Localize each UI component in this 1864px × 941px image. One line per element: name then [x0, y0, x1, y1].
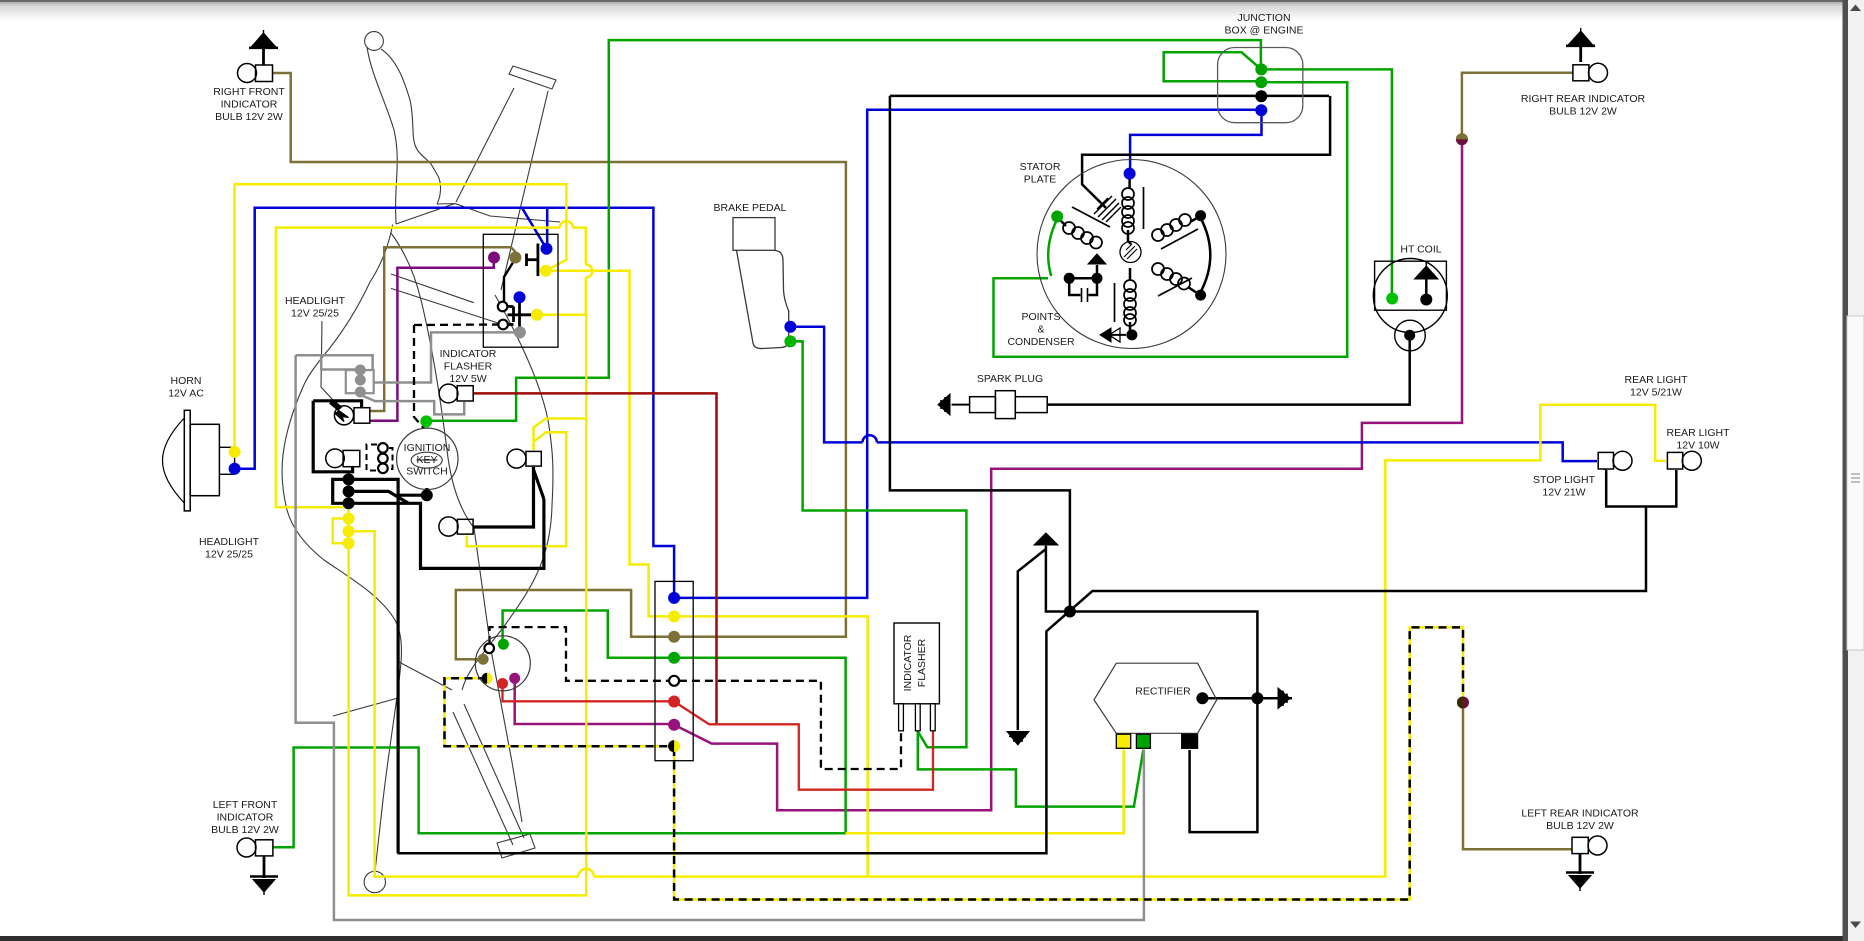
wire black: engine box right side to stator: [1082, 96, 1330, 208]
stator right top coil: [1152, 214, 1198, 249]
bulb right rear indicator: [1573, 63, 1608, 82]
stator flywheel hatch: [1094, 196, 1121, 222]
horn symbol: [163, 410, 235, 511]
ignition dashed contact box: [367, 445, 393, 471]
headlight label leader line: [321, 321, 333, 400]
brake pedal symbol: [733, 218, 789, 349]
wire black: HT coil ground stub: [1425, 279, 1428, 297]
wire olive: right rear indicator down to junction dot: [1462, 73, 1573, 136]
ground right front indicator: [249, 30, 278, 65]
svg-text:KEY: KEY: [416, 454, 437, 466]
svg-text:POINTS: POINTS: [1021, 311, 1060, 323]
ground HT coil: [1415, 262, 1439, 279]
svg-text:INDICATOR: INDICATOR: [902, 634, 914, 691]
wire purple: connector to right rear indicator junction: [674, 141, 1462, 810]
switch open contact 2: [498, 320, 508, 330]
wire gray: block dot3 to flasher bulb: [362, 396, 464, 415]
ground below diagonal: [1007, 732, 1029, 746]
wire olive: dip switch to handlebar switch: [370, 247, 516, 411]
node switch yellow 1: [540, 265, 552, 277]
wire dark red: indicator flasher bulb to junction: [474, 393, 717, 724]
wire black: rectifier output to ground: [1202, 697, 1273, 700]
wire yellow: cluster vertical and bottom loop to long riser: [349, 315, 587, 896]
ignition key ellipse: [411, 452, 442, 468]
wire yellow Y2: headlight riser to switch dot2: [276, 228, 560, 517]
node horn blue: [229, 463, 241, 475]
stator hub: [1120, 242, 1141, 263]
node gray block 3: [355, 387, 366, 398]
node cluster yellow 1: [343, 513, 355, 525]
svg-text:LEFT FRONT: LEFT FRONT: [213, 799, 278, 811]
relay pin 1: [899, 704, 904, 731]
svg-text:RECTIFIER: RECTIFIER: [1135, 686, 1191, 698]
node gray block 2: [355, 375, 366, 386]
wire blue: brake pedal to stop light (right part): [877, 442, 1597, 461]
svg-text:12V 5W: 12V 5W: [449, 373, 486, 385]
wire black: cluster dot1 bracket: [333, 479, 349, 503]
node stator bottom terminal: [1126, 329, 1137, 340]
scrollbar down arrow: [1850, 922, 1861, 929]
indicator flasher relay box: [894, 623, 939, 704]
node connector open: [669, 676, 679, 686]
spark plug symbol: [970, 391, 1048, 419]
node cluster black 3: [343, 497, 355, 509]
connector strip: [655, 581, 693, 760]
wire yellow: switch dot1 stub to connector: [547, 271, 671, 617]
wire blue: hop over riser: [863, 435, 877, 442]
svg-text:BULB 12V 2W: BULB 12V 2W: [1549, 106, 1617, 118]
kick lever lines: [391, 233, 522, 822]
svg-text:BULB 12V 2W: BULB 12V 2W: [215, 111, 283, 123]
wire yellow: bus continues to rear lights: [594, 405, 1666, 877]
node connector purple: [668, 719, 680, 731]
svg-text:RIGHT REAR INDICATOR: RIGHT REAR INDICATOR: [1521, 93, 1646, 105]
wire black: cluster dot2 diagonal: [349, 491, 409, 503]
bulb left rear indicator: [1572, 836, 1607, 855]
node cluster yellow 2: [343, 525, 355, 537]
rectifier hexagon: [1094, 663, 1217, 733]
right window border line: [1843, 0, 1849, 941]
wire yellow Y1: horn to switch area: [235, 184, 567, 452]
wire blue: branch diagonal into switch blue dot: [522, 208, 547, 249]
HT coil symbol: [1373, 259, 1447, 351]
ground stator points: [1088, 254, 1106, 264]
wire black: pilot bulb drop and diagonal: [474, 467, 534, 527]
fork tube flange: [509, 66, 556, 89]
ground rectifier right: [1273, 688, 1292, 709]
node rectifier bus junction: [1251, 692, 1263, 704]
wire black: bottom coil to bottom terminal: [1129, 322, 1132, 335]
svg-text:SPARK PLUG: SPARK PLUG: [977, 373, 1043, 385]
bottom window bar: [0, 936, 1864, 941]
wire green: junction dot1 to HT coil: [1264, 69, 1392, 295]
svg-text:12V 25/25: 12V 25/25: [205, 549, 253, 561]
ground above black bus: [1034, 533, 1058, 546]
node junction black: [1255, 90, 1267, 102]
wire black: ignition dot feed: [398, 494, 425, 497]
bulb left front indicator: [237, 838, 273, 857]
wire green: ignition switch to junction box dot1: [429, 40, 1261, 421]
node bus junction left: [1064, 606, 1076, 618]
wire gray: block top hook: [321, 355, 372, 370]
wire green: brake pedal to flasher pin2: [792, 341, 966, 747]
node plug purple: [509, 673, 520, 684]
node horn yellow: [229, 446, 241, 458]
node connector yellow: [668, 610, 680, 622]
node connector olive: [668, 631, 680, 643]
wire black: ignition dot stub: [425, 488, 428, 495]
node connector red: [668, 696, 680, 708]
ignition contact circle 1: [378, 443, 388, 453]
svg-text:12V 21W: 12V 21W: [1542, 487, 1585, 499]
wire purple: round plug to connector: [515, 678, 672, 724]
wire yellow: cluster bracket: [333, 519, 349, 544]
svg-text:12V AC: 12V AC: [168, 388, 204, 400]
wire black: ground pole diagonal to lower ground: [1018, 549, 1046, 730]
node cluster black 2: [343, 485, 355, 497]
handlebar switch box: [483, 234, 558, 347]
wire black: dip switch L and left drop: [313, 401, 361, 407]
wire black: engine box top from junction: [890, 95, 1329, 98]
node stator blue terminal: [1124, 168, 1136, 180]
svg-text:&: &: [1037, 324, 1044, 336]
node stator green terminal: [1051, 211, 1063, 223]
svg-text:INDICATOR: INDICATOR: [221, 99, 278, 111]
rectifier yellow terminal: [1116, 734, 1130, 748]
bulb stop light: [1598, 451, 1632, 470]
svg-text:12V 5/21W: 12V 5/21W: [1630, 387, 1682, 399]
handlebar tent outline: [396, 204, 560, 225]
node plug yellow-black: [482, 673, 493, 684]
kick pedal cap: [497, 834, 535, 858]
ground spark plug: [938, 394, 970, 415]
svg-text:RIGHT FRONT: RIGHT FRONT: [213, 86, 285, 98]
wire black: cluster dot1 to long drop: [349, 479, 399, 853]
wire yellow Y2: into switch yellow dot2: [538, 278, 586, 315]
condenser plates: [1082, 288, 1088, 302]
node rectifier output: [1196, 692, 1208, 704]
wire dashed: round plug to connector to flasher pin1: [490, 627, 902, 769]
node HT coil ground: [1420, 294, 1432, 306]
ignition switch circle: [397, 428, 458, 489]
scrollbar up arrow: [1850, 5, 1861, 12]
wire dashed: switch to ignition: [414, 325, 424, 429]
wire yellow Y2: hop over Y1 vertical: [560, 221, 573, 227]
junction box at engine: [1218, 48, 1303, 123]
wire green: left front indicator to connector to round plug: [274, 611, 846, 848]
node olive-maroon junction top right: [1456, 133, 1468, 145]
wire black: condenser hookup: [1069, 278, 1080, 295]
rectifier green terminal: [1136, 734, 1150, 748]
svg-text:HEADLIGHT: HEADLIGHT: [199, 536, 260, 548]
node ignition black: [421, 489, 433, 501]
wire black: rear bulbs ground bus: [1606, 470, 1676, 507]
wire black: points dots bar: [1069, 277, 1097, 280]
svg-text:HEADLIGHT: HEADLIGHT: [285, 295, 346, 307]
relay pin 3: [930, 704, 935, 731]
wire purple: dip switch to handlebar switch: [370, 259, 494, 421]
node cluster black 1: [343, 473, 355, 485]
node HT coil output: [1404, 330, 1415, 341]
node brake pedal blue: [784, 321, 796, 333]
wire black: bottom bus to rear lights: [397, 507, 1646, 854]
svg-text:12V 25/25: 12V 25/25: [291, 308, 339, 320]
fork tube outline: [456, 88, 548, 290]
svg-text:PLATE: PLATE: [1024, 174, 1056, 186]
scrollbar thumb: [1847, 316, 1864, 650]
wire blue: junction box to stator terminal: [1130, 112, 1261, 171]
wire black: bottom coil to hub: [1129, 268, 1132, 280]
wire black: stator right terminals arc: [1201, 218, 1211, 292]
ground stator bottom arrows: [1100, 328, 1126, 342]
svg-text:HORN: HORN: [171, 375, 202, 387]
node connector green: [668, 652, 680, 664]
wire black: stop light bulb ground drop: [1604, 469, 1607, 470]
stator left coil: [1063, 207, 1110, 249]
handlebar diagonal lines: [391, 274, 504, 325]
wire black: right top coil stub: [1190, 218, 1197, 222]
wire olive: left rear indicator from junction dot: [1463, 705, 1572, 849]
switch open contact 1: [498, 302, 508, 312]
stator right bottom coil: [1152, 263, 1192, 296]
wire black: ground pole to bus: [1046, 546, 1258, 695]
node stator right top terminal: [1195, 210, 1206, 221]
node ignition green: [420, 415, 432, 427]
brake lever outline: [381, 49, 441, 204]
node junction green 1: [1255, 63, 1267, 75]
node plug green: [498, 639, 509, 650]
wire black: spark plug to HT coil: [1047, 337, 1410, 405]
switch top contact bars: [527, 244, 538, 277]
ignition contact circle 3: [378, 464, 388, 474]
node yellowblack-olive junction bottom right: [1457, 697, 1469, 709]
body legshield curve: [282, 225, 401, 872]
bulb pilot: [507, 449, 541, 468]
wire black: cluster dot3 line to lower bus: [349, 499, 544, 568]
dip switch arrow: [330, 400, 349, 422]
wire green: stator arc green terminal: [1048, 219, 1057, 276]
svg-text:LEFT REAR INDICATOR: LEFT REAR INDICATOR: [1521, 808, 1639, 820]
ground left front indicator: [250, 856, 278, 895]
switch lower contact cross: [507, 302, 536, 333]
svg-text:STOP LIGHT: STOP LIGHT: [1533, 474, 1596, 486]
wire dashed: switch contact stub: [414, 323, 499, 326]
bulb rear light 10W: [1667, 451, 1701, 470]
wire yellow Y2: hop over dot1 stub: [586, 265, 593, 278]
wire blue: horn to switch to connector: [235, 208, 674, 598]
wire red: round plug to connector: [503, 685, 673, 701]
bulb dip switch: [334, 406, 369, 425]
node plug red: [497, 678, 508, 689]
wire black: right bottom coil stub: [1188, 287, 1197, 293]
wire yellow: headlight bulb loop: [467, 432, 566, 546]
wire yellow: bus hop over long riser: [578, 869, 594, 877]
node connector yellow-black: [668, 740, 680, 752]
stator top coil: [1122, 187, 1144, 234]
svg-text:REAR LIGHT: REAR LIGHT: [1666, 427, 1730, 439]
wire black: rectifier loop to black terminal: [1190, 698, 1258, 832]
wire olive: right front indicator to connector to round plug: [273, 73, 846, 659]
ground left rear indicator: [1566, 854, 1594, 891]
bulb indicator flasher 12V 5W: [439, 384, 473, 403]
node plug open: [484, 644, 494, 654]
svg-text:12V 10W: 12V 10W: [1676, 440, 1719, 452]
svg-text:REAR LIGHT: REAR LIGHT: [1624, 374, 1688, 386]
ground right rear indicator: [1566, 28, 1595, 62]
wire black: engine box left side to rectifier area: [890, 96, 1070, 608]
node cluster yellow 3: [343, 537, 355, 549]
stator bottom coil: [1115, 280, 1137, 326]
svg-text:FLASHER: FLASHER: [916, 638, 928, 687]
svg-text:BULB 12V 2W: BULB 12V 2W: [1546, 820, 1614, 832]
wire gray: switch gray dot to 3-dot block: [375, 332, 519, 382]
svg-text:INDICATOR: INDICATOR: [217, 812, 274, 824]
wire black: points ground pole: [1096, 265, 1099, 278]
svg-text:STATOR: STATOR: [1020, 161, 1061, 173]
svg-text:BOX @ ENGINE: BOX @ ENGINE: [1225, 25, 1304, 37]
svg-text:CONDENSER: CONDENSER: [1007, 336, 1075, 348]
wire yellow: connector to bottom bus junction: [677, 616, 868, 876]
node junction green 2: [1255, 76, 1267, 88]
svg-text:FLASHER: FLASHER: [444, 361, 493, 373]
wire black: top coil to hub: [1128, 230, 1131, 244]
wire yellow: pilot bulb feed from long riser: [534, 419, 587, 451]
wire yellow: cluster dot2 stub to bottom bus to rear light 10W: [349, 531, 579, 876]
brake lever ball: [365, 32, 384, 51]
svg-text:JUNCTION: JUNCTION: [1237, 12, 1290, 24]
node brake pedal green: [784, 335, 796, 347]
node switch purple: [488, 252, 500, 264]
body curve right of ignition: [462, 295, 553, 690]
node switch yellow 2: [531, 309, 543, 321]
front wheel hub circle: [364, 871, 385, 892]
node switch blue 2: [514, 291, 526, 303]
bulb right front indicator: [238, 64, 273, 83]
round plug circle: [475, 636, 530, 691]
ignition contact circle 2: [378, 454, 388, 464]
wire yellow-black: round plug to connector to left rear indicator: [445, 678, 672, 746]
wire gray: long run to rectifier green terminal: [296, 354, 373, 357]
wire red: connector to flasher pin3: [674, 702, 933, 790]
node switch blue top: [541, 243, 553, 255]
scrollbar track: [1848, 0, 1864, 941]
wire blue: brake pedal switch to stop light (left part): [792, 327, 863, 443]
node gray block 1: [355, 365, 366, 376]
svg-text:HT COIL: HT COIL: [1400, 244, 1441, 256]
bulb headlight lower: [439, 517, 473, 536]
relay pin 2: [915, 704, 920, 731]
bulb headlight main: [326, 449, 360, 468]
node HT coil green: [1386, 293, 1398, 305]
node points right: [1092, 273, 1103, 284]
wire black: stator blue terminal to top coil: [1128, 176, 1131, 188]
wire yellow: rectifier yellow terminal to green corner: [846, 750, 1124, 834]
node plug olive: [478, 654, 489, 665]
wire blue: connector to long riser to junction box: [674, 110, 1259, 598]
svg-text:INDICATOR: INDICATOR: [440, 348, 497, 360]
svg-text:BRAKE PEDAL: BRAKE PEDAL: [714, 202, 787, 214]
node stator right bottom terminal: [1195, 290, 1206, 301]
wire green: junction dot2 to points and condenser: [994, 82, 1348, 357]
switch lever from olive dot: [504, 260, 515, 301]
wire blue: branch vertical into switch blue dot: [546, 208, 549, 249]
svg-text:IGNITION: IGNITION: [404, 442, 451, 454]
wire green: flasher pin2 to rectifier green terminal: [918, 732, 1144, 807]
svg-text:BULB 12V 2W: BULB 12V 2W: [211, 824, 279, 836]
wire black: stator green terminal stub: [1059, 219, 1066, 226]
node points left: [1064, 273, 1075, 284]
node switch olive: [509, 252, 521, 264]
stator plate circle: [1037, 160, 1226, 349]
rectifier black terminal: [1182, 734, 1198, 748]
node junction blue: [1255, 104, 1267, 116]
body lines near round plug: [333, 662, 452, 716]
svg-text:SWITCH: SWITCH: [406, 466, 447, 478]
wire green: junction box U loop dot1-dot2: [1164, 52, 1262, 81]
node switch gray: [514, 326, 526, 338]
wire black: junction box black dot stub: [1259, 95, 1263, 98]
gray 3-dot block: [346, 370, 374, 393]
node connector blue: [668, 592, 680, 604]
